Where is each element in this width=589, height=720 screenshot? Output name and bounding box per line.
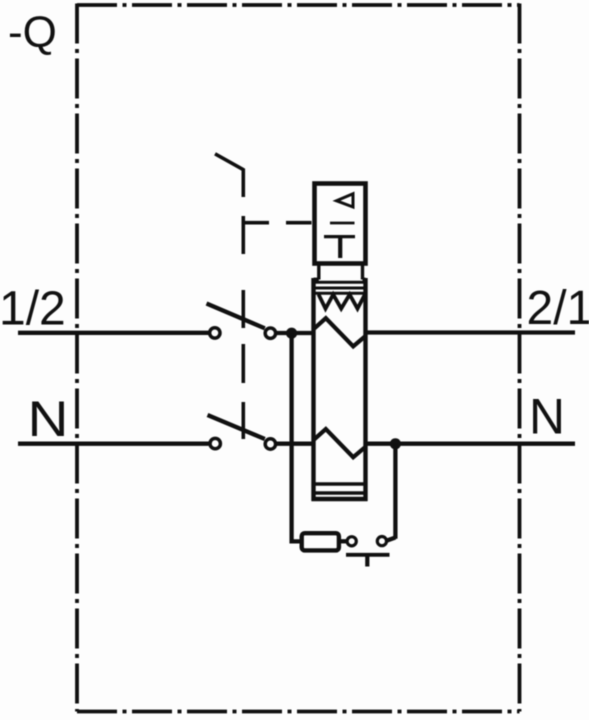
switch contact, phase pole: output terminal — [265, 328, 275, 338]
svg-text:2/1: 2/1 — [527, 282, 589, 335]
thermal release zigzag, phase path — [314, 318, 366, 346]
junction: phase test tap — [286, 328, 297, 339]
switch contact, phase pole: fixed terminal — [210, 328, 220, 338]
wire: elbow into right test contact — [386, 538, 395, 541]
svg-text:-Q: -Q — [8, 8, 57, 57]
junction: neutral test tap — [390, 438, 401, 449]
wire: right neutral lead N — [366, 442, 576, 446]
wire: right phase lead 2/1 — [366, 330, 576, 334]
wire: neutral between switch and release block — [276, 442, 314, 446]
svg-text:1/2: 1/2 — [0, 283, 66, 336]
overcurrent release body (tall rectangle) — [312, 278, 368, 501]
test button contact, left terminal — [347, 537, 356, 546]
wire: resistor to test contact — [341, 539, 347, 543]
mechanical trip linkage (dashed) — [215, 154, 312, 439]
wire: test branch down from neutral — [393, 444, 397, 539]
switch contact, neutral pole: output terminal — [265, 439, 275, 449]
test resistor — [302, 533, 339, 550]
armature neck below release box — [314, 266, 366, 280]
switch contact, neutral pole: moving blade — [208, 415, 265, 439]
indicator triangle inside release box — [337, 194, 354, 207]
switch contact, neutral pole: fixed terminal — [210, 438, 220, 448]
switch contact, phase pole: moving blade — [207, 304, 265, 329]
wire: test branch down from phase — [292, 333, 300, 541]
thermal release zigzag, neutral path — [314, 429, 366, 457]
svg-text:N: N — [529, 389, 565, 445]
body base lines — [312, 484, 367, 493]
svg-text:N: N — [28, 391, 69, 447]
wire: phase between switch and overcurrent release — [276, 331, 314, 335]
magnet yoke lamination lines — [312, 282, 368, 293]
wire: left neutral lead N — [18, 442, 209, 446]
short line inside release box — [330, 222, 355, 225]
wire: left phase lead 1/2 — [18, 331, 209, 335]
test button actuator — [346, 553, 390, 557]
residual-current release box with test indicator — [315, 184, 366, 264]
test button contact, right terminal — [377, 537, 386, 546]
coil teeth fringe — [319, 294, 366, 308]
enclosure boundary of device -Q (dash-dot frame) — [77, 4, 520, 712]
T symbol inside release box — [324, 235, 355, 238]
